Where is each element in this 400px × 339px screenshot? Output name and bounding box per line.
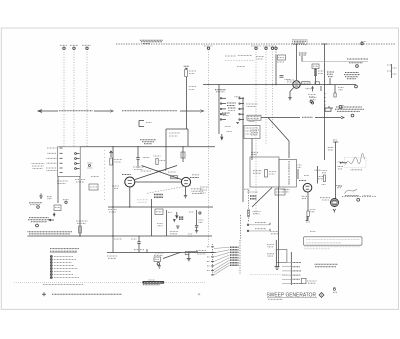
svg-text:B: B: [333, 287, 336, 292]
